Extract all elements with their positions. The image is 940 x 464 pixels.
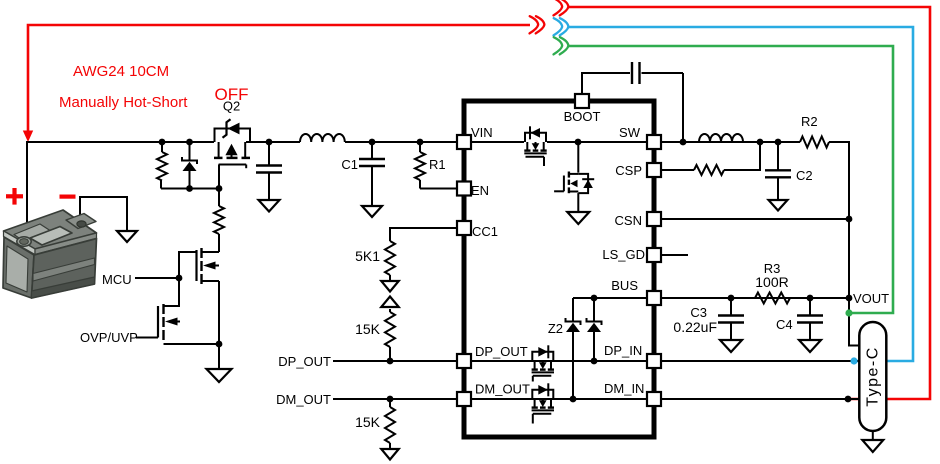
label - (battery negative): [60, 195, 76, 199]
wire to MCU-section ground: [218, 344, 220, 369]
internal low-side NMOS with body diode: [577, 142, 579, 173]
wire DP_OUT line into IC: [333, 360, 457, 362]
pin EN: [457, 182, 471, 196]
resistor 15K (DM bias): [389, 399, 391, 407]
svg-text:CSN: CSN: [615, 213, 642, 228]
svg-text:0.22uF: 0.22uF: [673, 319, 717, 335]
svg-text:DM_OUT: DM_OUT: [475, 382, 530, 397]
svg-text:BUS: BUS: [611, 278, 638, 293]
transistor Q2 (PMOS load switch, horizontal): [215, 129, 251, 143]
ground under second 15K: [381, 449, 399, 460]
transistor (MCU-controlled NMOS): [179, 252, 197, 278]
ground under Type-C: [862, 440, 883, 452]
resistor R1: [419, 142, 421, 152]
svg-text:DM_IN: DM_IN: [604, 381, 644, 396]
resistor (gate pull-down) below Q2: [218, 189, 220, 207]
pin SW: [647, 135, 661, 149]
ground (flipped) above 15K: [381, 297, 399, 308]
svg-text:BOOT: BOOT: [564, 109, 601, 124]
internal DM switch FET: [532, 390, 553, 399]
Q2 gate bar and lead: [219, 164, 247, 166]
node dot CSN / column: [846, 216, 853, 223]
svg-text:C3: C3: [690, 305, 707, 320]
svg-text:LS_GD: LS_GD: [602, 247, 645, 262]
ground under MCU section: [207, 369, 232, 382]
svg-text:Type-C: Type-C: [865, 346, 882, 407]
svg-text:SW: SW: [619, 125, 641, 140]
capacitor C4: [809, 298, 811, 316]
zener Z2 right element: [593, 298, 595, 321]
node dot zener / bottom rail: [186, 185, 193, 192]
zener diode D1 (gate clamp): [189, 142, 191, 160]
pin BUS: [647, 291, 661, 305]
svg-text:CC1: CC1: [472, 224, 498, 239]
battery (12V source) illustration: [3, 210, 97, 298]
ground under C4: [799, 340, 821, 352]
wire-break chevrons on cyan wire: [554, 18, 563, 35]
pin DM_IN: [647, 392, 661, 406]
transistor (OVP/UVP NMOS): [157, 306, 159, 338]
node dot cyan DP at connector: [850, 357, 857, 364]
svg-text:EN: EN: [471, 183, 489, 198]
resistor (gate pull-up) at Q2 input: [161, 142, 163, 152]
internal DP switch FET: [532, 352, 553, 361]
svg-text:C4: C4: [776, 317, 793, 332]
pin CSP: [647, 163, 661, 177]
wire BUS pin to ESD clamp rail: [573, 297, 647, 299]
battery positive terminal wire: [26, 141, 28, 241]
node dot FET sources / ground rail: [216, 341, 223, 348]
wire VOUT to Type-C connector: [849, 298, 860, 346]
inductor L1 (input filter): [300, 134, 345, 142]
wire DP_IN to Type-C: [661, 360, 859, 362]
ground under C3: [720, 340, 742, 352]
wire-break chevrons on left red wire: [530, 16, 539, 33]
resistor 5K1: [385, 241, 395, 275]
battery negative terminal wire: [80, 197, 127, 231]
pin DM_OUT: [457, 392, 471, 406]
svg-text:C2: C2: [796, 168, 813, 183]
input capacitor at Q2 output: [268, 142, 270, 166]
wire BUS pin to output filter: [661, 297, 847, 299]
pin LS_GD: [647, 248, 661, 262]
pin CC1: [457, 221, 471, 235]
node dot right zener / DP_IN line: [591, 358, 598, 365]
node dot SW internal / NMOS drain: [575, 139, 582, 146]
node dot BUS / C3: [728, 295, 735, 302]
node dot input rail / zener: [186, 139, 193, 146]
main input rail wire: [27, 141, 214, 143]
wire CSN pin to feedback column: [661, 218, 849, 220]
internal high-side PMOS: [525, 133, 546, 142]
wire Type-C shield to ground: [872, 431, 874, 440]
node dot DM_OUT / 15K: [387, 396, 394, 403]
svg-text:VOUT: VOUT: [853, 291, 889, 306]
node dot gate rail / pull-down: [216, 185, 223, 192]
node dot inductor / C2: [775, 139, 782, 146]
wire DM internal line: [471, 398, 647, 400]
wire-break chevrons on right red wire: [554, 0, 563, 15]
wire R1 to EN pin: [420, 188, 457, 190]
node VOUT dot: [846, 295, 853, 302]
wire gate-drive bottom rail: [161, 188, 219, 190]
wire LS_GD stub: [661, 254, 688, 256]
inductor L2 (output): [699, 134, 743, 142]
node dot rail / R1: [417, 139, 424, 146]
capacitor C2: [777, 142, 779, 170]
red supply wire from battery + (AWG24) with down arrow: [28, 25, 530, 133]
ground under 5K1: [381, 281, 399, 292]
battery negative post: [77, 221, 86, 227]
pin DP_IN: [647, 354, 661, 368]
ground under internal NMOS: [567, 212, 589, 224]
sense filter resistor (CSP): [694, 165, 724, 175]
svg-text:C1: C1: [341, 157, 358, 172]
svg-text:Manually Hot-Short: Manually Hot-Short: [59, 94, 188, 111]
svg-text:15K: 15K: [355, 414, 381, 430]
pin BOOT: [575, 94, 589, 108]
Type-C connector body: [859, 322, 886, 431]
wire sense resistor to SW node: [724, 142, 760, 170]
svg-text:R2: R2: [801, 114, 818, 129]
resistor R3: [755, 293, 790, 304]
red return wire to Type-C VBUS (top): [568, 7, 930, 399]
wire OVP/UVP to gate: [136, 337, 158, 339]
IC U1 outline (buck converter): [464, 101, 654, 437]
pin CSN: [647, 212, 661, 226]
wire NMOS source to ground: [577, 193, 579, 212]
node dot DM at connector: [845, 396, 852, 403]
wire DM_OUT line into IC: [333, 398, 457, 400]
svg-text:DP_IN: DP_IN: [604, 343, 642, 358]
svg-text:DP_OUT: DP_OUT: [475, 344, 528, 359]
svg-text:15K: 15K: [355, 321, 381, 337]
svg-text:MCU: MCU: [102, 272, 132, 287]
node dot green sense on VOUT column: [845, 309, 852, 316]
node dot left zener / DM_IN line: [570, 396, 577, 403]
zener Z2 left element: [572, 298, 574, 321]
resistor R2: [800, 137, 829, 148]
node dot SW node / boot cap return: [680, 139, 687, 146]
label + (battery positive): [6, 188, 23, 205]
svg-text:Q2: Q2: [223, 99, 240, 114]
wire VIN to internal PMOS to SW: [471, 141, 524, 143]
svg-text:OVP/UVP: OVP/UVP: [80, 330, 138, 345]
wire CC1 pin to 5K1: [390, 228, 457, 241]
wire R2 to CSN/VOUT column: [829, 142, 849, 298]
svg-text:5K1: 5K1: [355, 248, 380, 264]
svg-text:Z2: Z2: [548, 321, 563, 336]
pin VIN: [457, 135, 471, 149]
wire DM_IN to Type-C: [661, 398, 859, 400]
svg-text:AWG24 10CM: AWG24 10CM: [73, 63, 169, 80]
capacitor C1: [371, 142, 373, 159]
node dot 15K / DP_OUT line: [387, 358, 394, 365]
node dot input rail / divider resistor: [159, 139, 166, 146]
resistor 15K (DP bias): [389, 309, 391, 312]
ground under C1: [362, 206, 382, 217]
capacitor C3: [730, 298, 732, 316]
node dot rail / C1: [369, 139, 376, 146]
wire-break chevrons on green wire: [554, 37, 563, 54]
BOOT bootstrap wire and capacitor: [582, 73, 630, 94]
wire SW to output inductor: [661, 141, 800, 143]
svg-text:R1: R1: [429, 157, 446, 172]
wire DP internal line: [471, 360, 647, 362]
battery positive post: [17, 237, 31, 247]
wire CSP pin to sense resistor: [661, 169, 694, 171]
svg-text:CSP: CSP: [615, 163, 642, 178]
node dot MCU gate node: [176, 275, 183, 282]
node dot rail / input capacitor: [266, 139, 273, 146]
ground under C2: [769, 200, 788, 211]
ground under input capacitor: [259, 200, 280, 212]
node dot R3 / C4: [807, 295, 814, 302]
svg-text:100R: 100R: [755, 274, 788, 290]
ground at battery negative: [117, 231, 137, 242]
node dot inductor / CSP sense: [757, 139, 764, 146]
pin DP_OUT: [457, 354, 471, 368]
svg-text:VIN: VIN: [471, 125, 493, 140]
node dot BUS / right zener: [591, 295, 598, 302]
wire MCU to gate node: [135, 277, 179, 279]
cyan wire to Type-C DP: [568, 27, 913, 361]
svg-text:DP_OUT: DP_OUT: [278, 354, 331, 369]
green wire to Type-C VOUT sense: [568, 46, 893, 313]
svg-text:DM_OUT: DM_OUT: [276, 392, 331, 407]
